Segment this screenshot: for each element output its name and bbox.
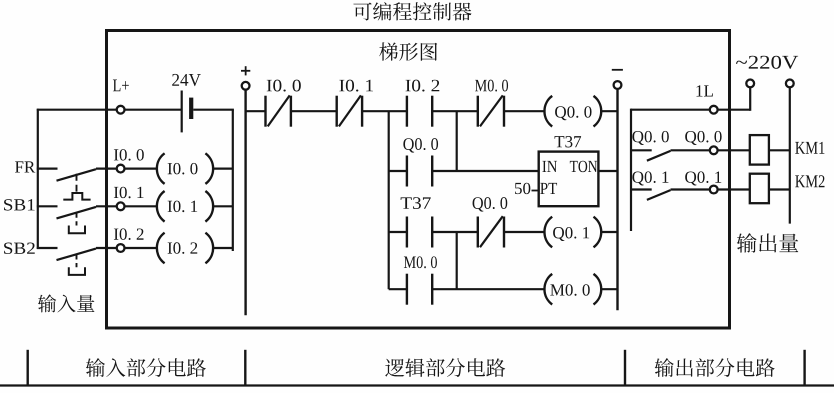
wire terminal I0.1 to coil	[125, 205, 159, 207]
output feed bus	[631, 109, 710, 111]
wire to timer (through node C)	[432, 170, 539, 172]
wire SB1 to terminal	[96, 205, 117, 207]
wire Q0.0 to terminal	[671, 149, 710, 151]
wire M0.0 rung	[389, 288, 407, 290]
label KM1	[795, 142, 824, 154]
label 梯形图	[379, 42, 437, 60]
wire node A drop 3	[388, 232, 390, 289]
contact Q0.0 (NO, seal-in)	[406, 156, 408, 187]
label 输出量	[737, 233, 799, 253]
label FR	[15, 161, 35, 172]
wire 1L to 220V	[718, 109, 751, 111]
contact I0.2 (NO)	[406, 96, 408, 127]
label Q0.1 terminal	[685, 171, 721, 185]
wire KM1 to right	[769, 149, 790, 151]
wire coil to right rail	[601, 231, 618, 233]
switch Q0.0 blade	[647, 151, 671, 161]
label Q0.1 contact	[632, 171, 668, 185]
tick 3	[624, 350, 626, 386]
node + (left rail top)	[241, 70, 250, 72]
timer T37 box	[539, 152, 599, 207]
tick 4	[803, 350, 805, 386]
tick 2	[244, 350, 246, 386]
wire terminal to KM2	[718, 188, 750, 190]
wire battery to return bus	[193, 109, 234, 111]
terminal I0.1	[117, 202, 125, 210]
bottom rule	[0, 384, 834, 386]
wire KM2 to right	[769, 188, 790, 190]
switch SB1 blade	[57, 207, 97, 219]
terminal Q0.1	[710, 186, 718, 194]
wire 220V right drop	[789, 87, 791, 223]
terminal I0.2	[117, 244, 125, 252]
label 输入量	[38, 294, 95, 312]
wire L+ to battery	[125, 109, 182, 111]
right power rail	[616, 89, 618, 310]
wire coil I0.2 to return bus	[213, 247, 233, 249]
wire (through node E)	[432, 231, 478, 233]
wire timer out to right rail	[598, 170, 617, 172]
input relay coil I0.1	[157, 191, 165, 222]
wire terminal to KM1	[718, 149, 750, 151]
label 24V	[172, 74, 201, 86]
wire FR to terminal	[96, 168, 117, 170]
label KM2	[795, 175, 824, 187]
contact M0.0 (NO)	[406, 274, 408, 305]
wire node A drop 2	[388, 171, 390, 232]
switch SB1 link (dashed)	[76, 213, 78, 226]
wire rung1	[246, 110, 266, 112]
label L+	[113, 80, 129, 92]
coil Q0.1	[544, 217, 552, 248]
input relay coil I0.0	[157, 153, 165, 184]
wire (through node B)	[432, 110, 478, 112]
wire Q0.1 to terminal	[671, 188, 710, 190]
coil M0.0	[544, 274, 552, 305]
input return bus	[232, 110, 234, 251]
switch FR thermal element	[63, 193, 90, 200]
wire T37 rung	[389, 231, 407, 233]
label I0.1 (input)	[114, 187, 144, 199]
label Q0.0 terminal	[685, 131, 721, 145]
contact I0.1 (NC)	[336, 96, 338, 127]
left power rail	[244, 90, 246, 315]
wire	[504, 110, 545, 112]
input relay coil I0.2	[157, 233, 165, 264]
label Q0.0 contact	[632, 131, 668, 145]
wire node A drop	[388, 111, 390, 171]
wire branch rung	[389, 170, 407, 172]
label I0.2 (input)	[114, 228, 144, 240]
wire	[504, 231, 545, 233]
wire SB2 stub	[37, 247, 58, 249]
switch SB2 button cap	[69, 267, 85, 275]
switch Q0.1 blade	[647, 190, 671, 200]
switch SB1 button cap	[69, 226, 85, 234]
contactor coil KM1	[750, 135, 769, 165]
label 逻辑部分电路	[385, 358, 505, 377]
wire	[291, 110, 337, 112]
wire coil to right rail	[601, 110, 618, 112]
title 可编程控制器	[353, 2, 471, 21]
wire 1L row	[630, 109, 632, 231]
switch FR link (dashed)	[76, 174, 78, 192]
contactor coil KM2	[750, 174, 769, 204]
label I0.0 (input)	[114, 149, 144, 161]
terminal L+	[117, 106, 125, 114]
timer texts	[542, 161, 557, 172]
contact M0.0 (NC)	[477, 96, 479, 127]
wire SB1 stub	[37, 205, 58, 207]
battery 24V	[181, 91, 183, 133]
label SB2	[4, 243, 35, 254]
wire SB2 to terminal	[96, 247, 117, 249]
contact Q0.0 (NC interlock)	[477, 217, 479, 248]
terminal Q0.0	[710, 146, 718, 154]
contact I0.0 (NC)	[264, 96, 266, 127]
switch SB2 link (dashed)	[76, 255, 78, 268]
switch SB2 blade	[57, 249, 97, 261]
terminal 220V R	[786, 80, 794, 88]
left input bus	[37, 109, 39, 249]
label 输入部分电路	[86, 358, 206, 377]
terminal 1L	[710, 106, 718, 114]
terminal 220V L	[746, 80, 754, 88]
wire coil I0.1 to return bus	[213, 205, 233, 207]
switch FR blade	[57, 169, 97, 181]
wire L+ row	[37, 109, 117, 111]
PLC enclosure box	[107, 31, 730, 329]
wire to coil M0.0	[432, 288, 545, 290]
wire node B drop	[456, 111, 458, 171]
wire Q0.1 stub	[631, 188, 652, 190]
wire terminal I0.2 to coil	[125, 247, 159, 249]
wire coil to right rail	[601, 288, 618, 290]
wire FR stub	[37, 168, 58, 170]
label 50 preset	[515, 183, 530, 194]
label SB1	[4, 199, 35, 210]
contact T37 (NO)	[406, 217, 408, 248]
label ~220V	[736, 56, 798, 69]
tick 1	[27, 350, 29, 386]
coil Q0.0	[544, 96, 552, 127]
label 输出部分电路	[655, 358, 775, 377]
wire (through node A)	[362, 110, 407, 112]
wire Q0.0 stub	[631, 149, 652, 151]
wire coil I0.0 to return bus	[213, 168, 233, 170]
terminal I0.0	[117, 165, 125, 173]
label 1L	[696, 85, 712, 96]
wire terminal I0.0 to coil	[125, 168, 159, 170]
node - (right rail top)	[612, 69, 623, 71]
wire node E drop	[456, 232, 458, 289]
